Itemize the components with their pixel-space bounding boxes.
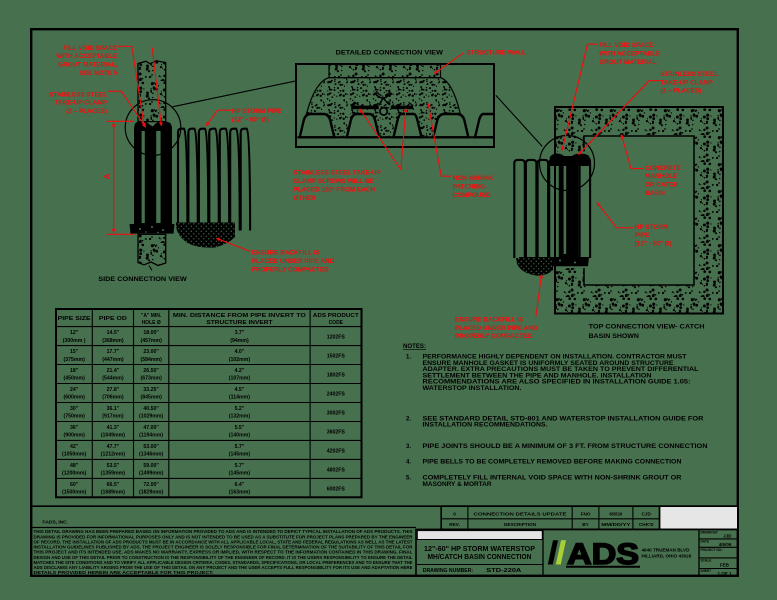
svg-text:PIPE SIZE: PIPE SIZE <box>58 316 92 322</box>
svg-text:PATCHING: PATCHING <box>453 183 485 190</box>
svg-text:59.00": 59.00" <box>143 463 159 469</box>
svg-text:(300mm ): (300mm ) <box>63 338 86 344</box>
top view: clamp mounds <box>549 153 591 166</box>
svg-text:36.1": 36.1" <box>107 406 120 412</box>
svg-text:DRAWING NUMBER:: DRAWING NUMBER: <box>423 568 473 574</box>
detailed connection view box <box>296 64 494 147</box>
svg-text:24": 24" <box>70 387 79 393</box>
svg-text:5.2": 5.2" <box>235 406 245 412</box>
svg-text:(584mm): (584mm) <box>140 357 162 363</box>
svg-text:(2 – PLACES): (2 – PLACES) <box>661 88 702 95</box>
svg-text:53.5": 53.5" <box>107 463 120 469</box>
svg-text:(1359mm): (1359mm) <box>101 471 125 477</box>
svg-text:CHK'D: CHK'D <box>639 522 654 527</box>
svg-text:(1194mm): (1194mm) <box>139 433 163 439</box>
svg-text:FNO: FNO <box>581 511 591 516</box>
svg-text:CJD: CJD <box>642 511 652 516</box>
svg-text:4/6/06: 4/6/06 <box>719 542 732 547</box>
svg-text:(145mm): (145mm) <box>229 452 251 458</box>
svg-text:HP STORM: HP STORM <box>635 224 669 231</box>
svg-text:2.: 2. <box>406 416 411 422</box>
svg-text:A: A <box>102 173 112 179</box>
svg-text:OR CATCH: OR CATCH <box>645 182 679 189</box>
svg-text:4.2": 4.2" <box>235 368 245 374</box>
svg-text:23.00": 23.00" <box>143 349 159 355</box>
svg-text:REV.: REV. <box>449 522 460 527</box>
svg-text:36": 36" <box>70 425 79 431</box>
side view: red dimension line A <box>107 120 135 122</box>
svg-text:PROPERLY COMPACTED: PROPERLY COMPACTED <box>252 266 329 273</box>
svg-text:CONNECTION DETAILS UPDATE: CONNECTION DETAILS UPDATE <box>474 511 567 516</box>
svg-text:SCALE: SCALE <box>701 558 712 562</box>
top view: wall band stipple <box>555 107 723 314</box>
svg-text:CONCRETE: CONCRETE <box>645 165 682 172</box>
svg-text:2402FS: 2402FS <box>327 392 346 398</box>
side view: wall break tick <box>149 266 152 271</box>
side view: HP storm pipe corrugated ribs <box>178 129 187 231</box>
svg-text:41.3": 41.3" <box>107 425 120 431</box>
detail: pipe crown line <box>297 136 492 138</box>
svg-text:4202FS: 4202FS <box>327 448 346 454</box>
svg-text:53.00": 53.00" <box>143 444 159 450</box>
svg-text:5.7": 5.7" <box>235 463 245 469</box>
svg-text:33.25": 33.25" <box>143 387 159 393</box>
svg-text:4640 TRUEMAN BLVD: 4640 TRUEMAN BLVD <box>642 548 691 553</box>
svg-text:©ADS, INC.: ©ADS, INC. <box>42 519 68 526</box>
detail: structure wall band (stipple) <box>329 65 441 78</box>
svg-text:4.: 4. <box>406 460 411 466</box>
svg-text:INSTALLATION RECOMMENDATIONS.: INSTALLATION RECOMMENDATIONS. <box>423 423 548 429</box>
svg-text:MANHOLE: MANHOLE <box>645 173 678 180</box>
svg-text:1502FS: 1502FS <box>327 354 346 360</box>
svg-text:(114mm): (114mm) <box>229 395 250 401</box>
top view: adapter dark band in wall <box>560 156 579 260</box>
svg-text:JJD: JJD <box>723 533 732 538</box>
svg-text:HILLIARD, OHIO 43026: HILLIARD, OHIO 43026 <box>642 554 692 559</box>
svg-text:3602FS: 3602FS <box>327 429 346 435</box>
svg-text:3002FS: 3002FS <box>327 410 346 416</box>
stamp white box <box>660 506 738 529</box>
svg-text:6/8/20: 6/8/20 <box>609 511 622 516</box>
svg-text:(1346mm): (1346mm) <box>139 452 163 458</box>
svg-text:(457mm): (457mm) <box>140 338 162 344</box>
title block top divider <box>31 505 738 507</box>
svg-text:47.7": 47.7" <box>107 444 120 450</box>
svg-text:SETTLEMENT BETWEEN THE PIPE AN: SETTLEMENT BETWEEN THE PIPE AND MANHOLE.… <box>423 373 652 379</box>
disclaimer box <box>31 527 416 529</box>
svg-text:(1029mm): (1029mm) <box>139 414 163 420</box>
svg-text:BASIN: BASIN <box>645 190 665 197</box>
svg-text:18.00": 18.00" <box>143 330 159 336</box>
svg-text:BY: BY <box>582 522 589 527</box>
svg-text:(12" - 60" Ø): (12" - 60" Ø) <box>232 117 269 124</box>
svg-text:(845mm): (845mm) <box>140 395 162 401</box>
svg-text:(1689mm): (1689mm) <box>101 490 125 496</box>
svg-text:SEE NOTE 5: SEE NOTE 5 <box>80 70 118 77</box>
svg-text:STD-220A: STD-220A <box>486 568 522 574</box>
svg-text:"A" MIN.: "A" MIN. <box>141 313 162 319</box>
svg-text:17.7": 17.7" <box>107 349 120 355</box>
svg-text:1202FS: 1202FS <box>327 335 346 341</box>
svg-text:ENSURE MANHOLE GASKET IS UNIFO: ENSURE MANHOLE GASKET IS UNIFORMLY SEATE… <box>423 361 674 367</box>
svg-text:CODE: CODE <box>329 320 344 326</box>
svg-text:STAINLESS STEEL TAKE-UP: STAINLESS STEEL TAKE-UP <box>293 170 381 177</box>
svg-text:(12" - 60" Ø): (12" - 60" Ø) <box>635 241 672 248</box>
svg-text:SEE STANDARD DETAIL STD-801 AN: SEE STANDARD DETAIL STD-801 AND WATERSTO… <box>423 416 705 422</box>
svg-text:(450mm): (450mm) <box>63 376 85 382</box>
svg-text:12": 12" <box>70 330 79 336</box>
svg-text:NON-SHRINK: NON-SHRINK <box>453 175 494 182</box>
svg-text:6.4": 6.4" <box>235 482 245 488</box>
svg-text:MASONRY & MORTAR: MASONRY & MORTAR <box>423 482 493 488</box>
svg-text:(1499mm): (1499mm) <box>139 471 163 477</box>
svg-text:PLACED UNDER PIPE AND: PLACED UNDER PIPE AND <box>455 325 538 332</box>
svg-text:3.7": 3.7" <box>235 330 245 336</box>
svg-text:(673mm): (673mm) <box>140 376 162 382</box>
svg-text:(900mm): (900mm) <box>63 433 85 439</box>
svg-text:1 OF 1: 1 OF 1 <box>717 571 731 576</box>
svg-text:MIN. DISTANCE FROM PIPE INVERT: MIN. DISTANCE FROM PIPE INVERT TO <box>173 313 306 319</box>
top view: inner square <box>584 136 694 285</box>
svg-text:72.00": 72.00" <box>143 482 159 488</box>
svg-text:1.: 1. <box>406 355 411 361</box>
svg-text:DETAILED CONNECTION VIEW: DETAILED CONNECTION VIEW <box>336 50 444 57</box>
svg-text:21.4": 21.4" <box>107 368 120 374</box>
svg-text:(107mm): (107mm) <box>229 376 251 382</box>
svg-text:(368mm): (368mm) <box>102 338 124 344</box>
svg-text:30": 30" <box>70 406 79 412</box>
top view: pipe bottom flare <box>519 257 589 266</box>
svg-text:RECOMMENDATIONS ARE ALSO SPECI: RECOMMENDATIONS ARE ALSO SPECIFIED IN IN… <box>423 380 691 386</box>
svg-text:5.: 5. <box>406 476 411 482</box>
svg-text:FILL VOID SPACE: FILL VOID SPACE <box>599 42 654 49</box>
top view: detail callout circle <box>540 136 595 191</box>
svg-text:FEB: FEB <box>720 563 730 568</box>
svg-text:WATERSTOP INSTALLATION.: WATERSTOP INSTALLATION. <box>423 386 522 392</box>
svg-text:26.50": 26.50" <box>143 368 159 374</box>
svg-text:(600mm): (600mm) <box>63 395 85 401</box>
svg-text:DETAILS PROVIDED HEREIN ARE AC: DETAILS PROVIDED HEREIN ARE ACCEPTABLE F… <box>34 570 214 575</box>
callout line to detail view <box>172 81 295 107</box>
svg-text:(145mm): (145mm) <box>229 471 251 477</box>
svg-text:4.5": 4.5" <box>235 387 245 393</box>
svg-text:PROPERLY COMPACTED: PROPERLY COMPACTED <box>455 333 532 340</box>
ADS logo <box>548 540 558 564</box>
svg-text:(2 – PLACES): (2 – PLACES) <box>66 108 107 115</box>
svg-text:DRAWN BY: DRAWN BY <box>701 531 719 535</box>
svg-text:(1050mm): (1050mm) <box>62 452 86 458</box>
svg-text:ADS PRODUCT: ADS PRODUCT <box>313 313 359 319</box>
rev table <box>441 506 659 529</box>
svg-text:27.8": 27.8" <box>107 387 120 393</box>
side view: structure wall upper <box>138 61 166 122</box>
svg-text:(750mm): (750mm) <box>63 414 85 420</box>
svg-text:(447mm): (447mm) <box>102 357 124 363</box>
svg-text:SHEET: SHEET <box>701 569 712 573</box>
svg-text:5.7": 5.7" <box>235 444 245 450</box>
svg-text:MM/DD/YY: MM/DD/YY <box>601 522 631 527</box>
svg-text:4802FS: 4802FS <box>327 467 346 473</box>
svg-text:12"-60" HP STORM WATERSTOP: 12"-60" HP STORM WATERSTOP <box>424 546 535 553</box>
svg-text:OTHER: OTHER <box>293 195 316 202</box>
svg-text:TOP CONNECTION VIEW- CATCH: TOP CONNECTION VIEW- CATCH <box>589 323 705 330</box>
svg-text:STAINLESS STEEL: STAINLESS STEEL <box>661 71 719 78</box>
svg-text:ADAPTER. EXTRA PRECAUTIONS MUS: ADAPTER. EXTRA PRECAUTIONS MUST BE TAKEN… <box>423 367 699 373</box>
side view: detail callout circle <box>125 100 181 156</box>
svg-text:(1212mm): (1212mm) <box>101 452 125 458</box>
svg-text:40.50": 40.50" <box>143 406 159 412</box>
svg-text:COMPLETELY FILL INTERNAL VOID: COMPLETELY FILL INTERNAL VOID SPACE WITH… <box>423 476 683 482</box>
svg-text:(163mm): (163mm) <box>229 490 251 496</box>
svg-text:14.5": 14.5" <box>107 330 120 336</box>
svg-text:1802FS: 1802FS <box>327 373 346 379</box>
svg-text:18": 18" <box>70 368 79 374</box>
top view: outer structure square <box>555 107 723 314</box>
main title box <box>416 529 738 575</box>
svg-text:66.5": 66.5" <box>107 482 120 488</box>
svg-text:TAKE-UP CLAMP: TAKE-UP CLAMP <box>661 79 714 86</box>
side view: manhole adapter body (dark) <box>134 128 172 226</box>
svg-text:(1829mm): (1829mm) <box>139 490 163 496</box>
svg-text:PROJECT NO.:: PROJECT NO.: <box>701 548 724 552</box>
svg-text:PLACED UNDER PIPE AND: PLACED UNDER PIPE AND <box>252 258 335 265</box>
svg-text:MH/CATCH BASIN CONNECTION: MH/CATCH BASIN CONNECTION <box>428 554 532 561</box>
svg-text:(1200mm): (1200mm) <box>62 471 86 477</box>
side view: adapter bottom flare <box>130 224 175 234</box>
svg-text:(1049mm): (1049mm) <box>101 433 125 439</box>
svg-text:(917mm): (917mm) <box>102 414 124 420</box>
svg-text:(375mm): (375mm) <box>63 357 85 363</box>
pipe size table <box>56 309 362 497</box>
svg-text:3.: 3. <box>406 444 411 450</box>
project white bar <box>417 531 542 540</box>
svg-text:4.0": 4.0" <box>235 349 245 355</box>
side view: structure wall lower <box>138 234 166 265</box>
svg-text:ENSURE BACKFILL IS: ENSURE BACKFILL IS <box>252 250 321 257</box>
svg-text:15": 15" <box>70 349 79 355</box>
svg-text:GROUT MATERIAL,: GROUT MATERIAL, <box>58 62 117 69</box>
svg-text:0: 0 <box>453 511 456 516</box>
detail: grout mound (stipple) <box>303 78 465 138</box>
side view: take-up clamp top mounds <box>134 121 172 131</box>
svg-text:STAINLESS STEEL: STAINLESS STEEL <box>49 91 107 98</box>
top view: last rib inside structure <box>580 160 591 258</box>
svg-text:FILL VOID SPACE: FILL VOID SPACE <box>63 45 118 52</box>
svg-text:HP STORM PIPE: HP STORM PIPE <box>232 108 283 115</box>
svg-text:WITH ACCEPTABLE: WITH ACCEPTABLE <box>599 50 661 57</box>
svg-text:60": 60" <box>70 482 79 488</box>
info column <box>699 538 738 540</box>
svg-text:PLACED 180° FROM EACH: PLACED 180° FROM EACH <box>293 185 375 193</box>
svg-text:COMPOUND: COMPOUND <box>453 192 491 199</box>
svg-text:PERFORMANCE HIGHLY DEPENDENT O: PERFORMANCE HIGHLY DEPENDENT ON INSTALLA… <box>423 355 687 361</box>
svg-text:(132mm): (132mm) <box>229 414 251 420</box>
svg-text:(1500mm): (1500mm) <box>62 490 86 496</box>
svg-text:(544mm): (544mm) <box>102 376 124 382</box>
detail: clamp ratchet squiggle <box>375 93 392 99</box>
svg-text:HOLE Ø: HOLE Ø <box>142 320 161 326</box>
top view: backfill dots <box>516 258 553 276</box>
svg-text:CLAMP SCREWS WILL BE: CLAMP SCREWS WILL BE <box>293 178 374 185</box>
callout line detail box to top view circle <box>496 95 542 146</box>
svg-text:DATE: DATE <box>701 539 709 543</box>
svg-text:42": 42" <box>70 444 79 450</box>
svg-text:PIPE JOINTS SHOULD BE A MINIMU: PIPE JOINTS SHOULD BE A MINIMUM OF 3 FT.… <box>423 444 708 450</box>
svg-text:GROUT MATERIAL: GROUT MATERIAL <box>599 59 656 66</box>
top view: pipe ribs <box>514 160 525 258</box>
svg-text:PIPE: PIPE <box>635 232 650 239</box>
svg-text:PIPE OD: PIPE OD <box>99 316 128 322</box>
svg-text:(94mm): (94mm) <box>230 338 249 344</box>
svg-text:(140mm): (140mm) <box>229 433 251 439</box>
svg-text:5.5": 5.5" <box>235 425 245 431</box>
svg-text:DESCRIPTION: DESCRIPTION <box>504 522 537 527</box>
detail: take-up clamp band + screw <box>351 106 379 110</box>
svg-text:BASIN SHOWN: BASIN SHOWN <box>589 333 640 340</box>
svg-text:NOTES:: NOTES: <box>403 343 426 350</box>
side view: backfill dots under pipe <box>176 223 235 248</box>
svg-text:SIDE CONNECTION VIEW: SIDE CONNECTION VIEW <box>98 276 187 283</box>
svg-text:6002FS: 6002FS <box>327 486 346 492</box>
svg-text:STRUCTURE INVERT: STRUCTURE INVERT <box>206 320 272 326</box>
svg-text:WITH ACCEPTABLE: WITH ACCEPTABLE <box>56 53 118 60</box>
svg-text:47.00": 47.00" <box>143 425 159 431</box>
svg-text:(102mm): (102mm) <box>229 357 251 363</box>
svg-text:(706mm): (706mm) <box>102 395 124 401</box>
svg-text:TAKE-UP CLAMP: TAKE-UP CLAMP <box>55 100 108 107</box>
svg-text:STRUCTURE WALL: STRUCTURE WALL <box>467 50 526 57</box>
svg-text:PIPE BELLS TO BE COMPLETELY RE: PIPE BELLS TO BE COMPLETELY REMOVED BEFO… <box>423 460 682 466</box>
svg-text:48": 48" <box>70 463 79 469</box>
svg-text:ENSURE BACKFILL IS: ENSURE BACKFILL IS <box>455 316 524 323</box>
